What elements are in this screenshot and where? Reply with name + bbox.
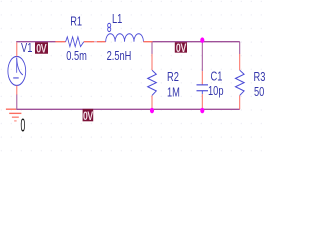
svg-text:10p: 10p [208, 85, 223, 99]
value 0.5m [65, 50, 89, 64]
bias label 0V at V1 node [35, 42, 48, 56]
V1 pin bottom [16, 85, 18, 94]
wire: top rail down to R2 [151, 42, 153, 54]
svg-text:V1: V1 [21, 42, 32, 56]
value 2.5nH [106, 50, 133, 64]
label L1 [111, 13, 123, 27]
value 1M [166, 86, 180, 100]
svg-text:0.5m: 0.5m [66, 50, 87, 64]
bias label 0V at output node [175, 42, 187, 56]
svg-text:C1: C1 [211, 70, 223, 84]
value 50 [253, 86, 264, 100]
svg-text:R1: R1 [70, 15, 82, 29]
wire: V1 top to R1 left pin (net 1) [16, 41, 55, 43]
wire: top rail down to C1 [201, 42, 203, 71]
resistor R2 body [148, 70, 157, 95]
svg-text:0V: 0V [176, 42, 186, 56]
inductor L1 pin right [143, 41, 152, 43]
inductor L1 pin-1 dot marker [108, 23, 111, 31]
resistor R1 pin left [55, 41, 65, 43]
wire: bottom ground rail (net 0) [16, 108, 239, 110]
resistor R2 pin bottom [151, 95, 153, 109]
value 10p [208, 85, 223, 99]
label R1 [69, 15, 82, 29]
capacitor C1 pin bottom [201, 94, 203, 109]
junction dot at C1 top [200, 37, 204, 43]
capacitor C1 pin top [201, 71, 203, 84]
capacitor C1 plates [197, 85, 209, 94]
wire: between R1 right pin and L1 left pin [94, 41, 97, 43]
resistor R1 body [66, 37, 84, 47]
inductor L1 body [106, 34, 144, 42]
bias label 0V at ground rail [83, 109, 94, 124]
wire: top rail corner down to R3 [239, 42, 241, 54]
ground net label 0 [21, 116, 26, 137]
svg-text:R3: R3 [254, 71, 266, 85]
resistor R3 pin bottom [239, 95, 241, 109]
voltage source V1 [8, 56, 26, 85]
svg-text:0: 0 [21, 116, 26, 137]
V1 pin top [16, 42, 18, 56]
resistor R2 pin top [151, 54, 153, 70]
svg-text:1M: 1M [167, 86, 180, 100]
resistor R3 pin top [239, 54, 241, 70]
svg-text:0V: 0V [83, 111, 93, 124]
svg-text:L1: L1 [112, 13, 122, 27]
svg-text:50: 50 [254, 86, 264, 100]
inductor L1 pin left [97, 41, 106, 43]
svg-text:2.5nH: 2.5nH [107, 50, 132, 64]
label R2 [166, 71, 179, 85]
wire: V1 bottom to ground rail [16, 94, 18, 109]
ground 0 symbol [6, 109, 22, 121]
label C1 [210, 70, 223, 84]
junction dot at C1 bottom [200, 108, 204, 114]
resistor R1 pin right [84, 41, 94, 43]
junction dot at R2 bottom [150, 108, 154, 114]
svg-text:0V: 0V [36, 42, 46, 56]
resistor R3 body [236, 70, 245, 95]
label V1 [20, 42, 34, 56]
wire: L1 right pin to R3 top (net 2, top rail) [152, 41, 239, 43]
svg-text:R2: R2 [167, 71, 179, 85]
label R3 [253, 71, 266, 85]
